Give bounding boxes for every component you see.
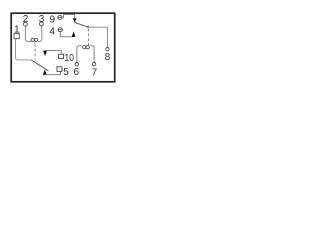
wire pin1 to blade pivot	[16, 39, 32, 60]
pin 10 terminal square	[59, 54, 64, 58]
wire pin4 to NC contact	[60, 32, 73, 37]
coil 1 loop b	[35, 38, 38, 41]
coil 2 loop a	[83, 46, 86, 49]
coil 2 left lead	[77, 46, 82, 63]
coil 1 armature stub	[34, 42, 36, 44]
pin 8 ring	[106, 48, 109, 51]
pin 9 ring bar	[58, 16, 62, 18]
svg-text:10: 10	[65, 53, 75, 64]
mechanical link dashed 1	[34, 44, 36, 60]
contact arrow 10	[43, 51, 47, 56]
pin 9 ring	[58, 16, 62, 20]
contact arrow 9	[73, 18, 77, 22]
wire blade pivot to pin 8	[88, 27, 107, 47]
wire pin9 to NO contact	[62, 14, 75, 18]
pin 5 terminal square	[57, 67, 62, 72]
pin 4 ring bar	[58, 29, 62, 31]
coil 1 left lead	[25, 26, 31, 41]
moving blade pole 2	[31, 60, 48, 71]
coil 2 loop b	[86, 46, 89, 49]
coil 1 loop a	[31, 38, 34, 41]
svg-text:9: 9	[49, 15, 55, 26]
pin 7 ring	[92, 62, 95, 65]
pin 4 ring	[58, 28, 62, 32]
svg-text:7: 7	[91, 68, 97, 79]
svg-text:8: 8	[105, 52, 111, 63]
wire contact to pin 10	[45, 50, 61, 53]
svg-text:5: 5	[63, 67, 69, 78]
coil 2 right lead	[91, 46, 95, 63]
pivot nub pole 1	[87, 26, 89, 28]
pin 1 terminal square	[14, 33, 19, 38]
mechanical link dashed 2	[88, 29, 90, 46]
wire contact to pin 5	[45, 72, 61, 75]
moving blade pole 1	[75, 22, 89, 27]
coil 1 right lead	[38, 26, 42, 42]
pin 3 ring	[40, 22, 44, 26]
pin 2 ring	[24, 22, 28, 26]
svg-text:6: 6	[73, 67, 79, 78]
contact arrow 4	[72, 31, 76, 37]
pin 6 ring	[75, 62, 78, 65]
relay case outline	[11, 13, 115, 82]
svg-text:4: 4	[49, 26, 55, 37]
contact arrow 5	[43, 69, 47, 75]
